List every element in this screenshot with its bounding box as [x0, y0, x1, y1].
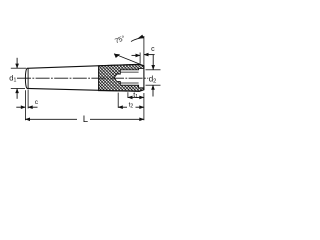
svg-text:c: c — [151, 46, 155, 53]
svg-text:L: L — [83, 114, 88, 125]
svg-text:t1: t1 — [133, 92, 138, 100]
svg-text:t2: t2 — [129, 102, 134, 110]
